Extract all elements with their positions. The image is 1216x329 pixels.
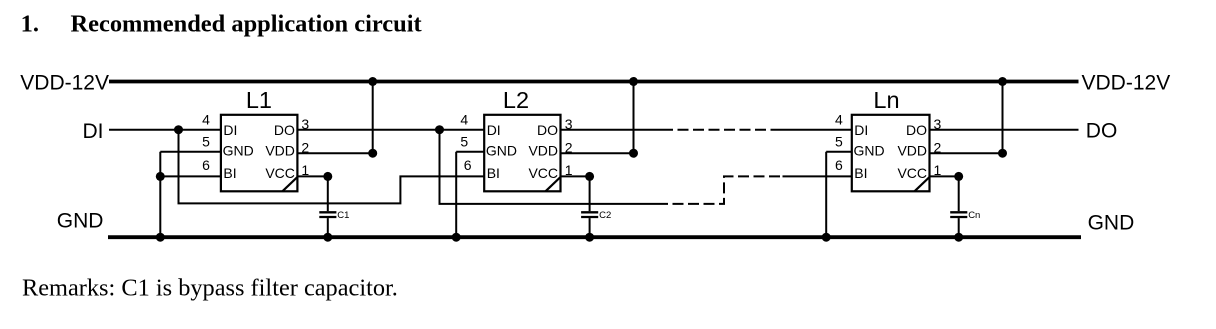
wire L1 GND pin 5 stub xyxy=(160,151,221,153)
wire L2 VDD riser to rail xyxy=(633,82,635,154)
wire Ln GND drop to rail xyxy=(825,152,827,238)
svg-text:DI: DI xyxy=(854,122,868,138)
svg-text:L1: L1 xyxy=(246,87,272,113)
junction DI input branch xyxy=(174,125,183,134)
junction Ln VDD at top rail xyxy=(998,77,1007,86)
wire GND bottom rail xyxy=(108,235,1081,239)
svg-text:Remarks: C1 is bypass filter c: Remarks: C1 is bypass filter capacitor. xyxy=(22,275,398,302)
junction Ln GND drop at rail xyxy=(822,233,831,242)
wire Ln VDD riser to rail xyxy=(1002,82,1004,154)
wire L2 GND pin 5 stub xyxy=(456,151,484,153)
junction L2 GND drop at rail xyxy=(452,233,461,242)
svg-text:Cn: Cn xyxy=(968,210,980,221)
wire solid tail into Ln BI pin 6 xyxy=(783,175,852,177)
svg-text:6: 6 xyxy=(464,157,472,173)
svg-text:6: 6 xyxy=(202,157,210,173)
section title xyxy=(21,11,423,38)
svg-text:C2: C2 xyxy=(599,210,611,221)
wire dashed route to Ln BI xyxy=(657,176,783,204)
svg-text:VDD-12V: VDD-12V xyxy=(20,72,109,95)
junction Ln VCC node xyxy=(954,172,963,181)
svg-text:1.: 1. xyxy=(21,11,39,38)
wire Ln DO pin 3 to DO output xyxy=(930,129,1079,131)
svg-text:DO: DO xyxy=(537,122,558,138)
junction L1 VCC node xyxy=(323,172,332,181)
capacitor C1 xyxy=(319,176,336,237)
svg-text:DI: DI xyxy=(83,120,104,143)
junction L1 GND drop at rail xyxy=(156,233,165,242)
svg-text:VDD: VDD xyxy=(897,142,927,158)
svg-text:Ln: Ln xyxy=(873,87,899,113)
svg-text:VCC: VCC xyxy=(897,165,927,181)
junction L1 BI to GND drop xyxy=(156,172,165,181)
svg-text:L2: L2 xyxy=(503,87,529,113)
IC U1 body L1 xyxy=(221,115,298,192)
svg-text:DO: DO xyxy=(274,122,295,138)
svg-text:DO: DO xyxy=(1086,120,1118,143)
wire L2 VDD pin 2 stub xyxy=(561,152,634,154)
wire L2 DO pin 3 out solid xyxy=(561,129,663,131)
svg-text:VDD: VDD xyxy=(265,142,295,158)
wire route DI to L2 BI (breakpoint resume) xyxy=(179,130,485,204)
junction L2 VCC node xyxy=(585,172,594,181)
junction Ln VDD stub end xyxy=(998,149,1007,158)
capacitor C2 xyxy=(581,176,598,237)
wire L1 GND drop to rail xyxy=(159,152,161,238)
junction L2 VDD stub end xyxy=(629,149,638,158)
svg-text:GND: GND xyxy=(1088,212,1135,235)
wire solid tail into Ln DI pin 4 xyxy=(777,129,852,131)
svg-text:DI: DI xyxy=(223,122,237,138)
IC U2 body L2 xyxy=(484,115,560,192)
wire route L2 DI branch down (breakpoint resume) xyxy=(440,130,658,204)
svg-text:4: 4 xyxy=(202,112,210,128)
IC Un body Ln xyxy=(852,115,930,192)
svg-text:BI: BI xyxy=(854,165,867,181)
svg-text:5: 5 xyxy=(460,134,468,150)
wire L1 VCC pin 1 stub xyxy=(297,175,327,177)
svg-text:GND: GND xyxy=(486,142,517,158)
junction C1 at GND rail xyxy=(323,233,332,242)
junction L1 VDD at top rail xyxy=(368,77,377,86)
junction C2 at GND rail xyxy=(585,233,594,242)
svg-text:C1: C1 xyxy=(337,210,349,221)
svg-text:Recommended application circui: Recommended application circuit xyxy=(71,11,423,38)
svg-text:BI: BI xyxy=(487,165,500,181)
svg-text:BI: BI xyxy=(223,165,236,181)
capacitor Cn xyxy=(950,176,967,237)
svg-text:VCC: VCC xyxy=(265,165,295,181)
svg-text:DI: DI xyxy=(487,122,501,138)
junction L1 VDD stub end xyxy=(368,149,377,158)
svg-text:5: 5 xyxy=(202,134,210,150)
junction L2 VDD at top rail xyxy=(629,77,638,86)
svg-text:4: 4 xyxy=(835,112,843,128)
svg-text:GND: GND xyxy=(223,142,254,158)
svg-text:6: 6 xyxy=(835,157,843,173)
wire Ln GND pin 5 stub xyxy=(826,151,852,153)
wire L1 DO pin 3 to L2 DI pin 4 xyxy=(297,129,484,131)
wire dashed DO continuation (omitted stages) xyxy=(662,129,777,131)
wire L1 VDD riser to rail xyxy=(372,82,374,154)
junction Cn at GND rail xyxy=(954,233,963,242)
wire DI input to L1 pin 4 xyxy=(109,129,221,131)
svg-text:5: 5 xyxy=(835,134,843,150)
svg-text:GND: GND xyxy=(854,142,885,158)
wire L2 GND drop to rail xyxy=(455,152,457,238)
wire Ln VCC pin 1 stub xyxy=(930,175,959,177)
wire L1 BI pin 6 stub xyxy=(160,175,221,177)
svg-text:4: 4 xyxy=(460,112,468,128)
wire VDD-12V top rail xyxy=(109,80,1079,84)
svg-text:VDD: VDD xyxy=(528,142,558,158)
wire Ln VDD pin 2 stub xyxy=(930,152,1003,154)
svg-text:VCC: VCC xyxy=(528,165,558,181)
wire L1 VDD pin 2 stub xyxy=(297,152,372,154)
svg-text:GND: GND xyxy=(57,210,104,233)
svg-text:DO: DO xyxy=(906,122,927,138)
wire L2 VCC pin 1 stub xyxy=(561,175,590,177)
junction L1 DO branch xyxy=(435,125,444,134)
svg-text:VDD-12V: VDD-12V xyxy=(1082,72,1171,95)
